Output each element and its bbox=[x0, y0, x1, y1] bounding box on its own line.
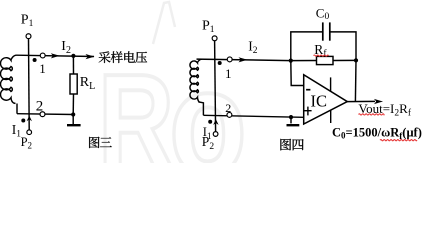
arrowhead I1 up fig3 bbox=[27, 116, 32, 122]
arrowhead I2 fig3 bbox=[51, 53, 60, 58]
wire: Rf line right segment bbox=[333, 59, 356, 61]
wire: figure3 bottom horizontal (node2) bbox=[17, 113, 73, 116]
junction dot feedback left bbox=[289, 59, 293, 63]
junction dot feedback right bbox=[354, 58, 358, 62]
terminal node 2 fig3 bbox=[40, 112, 45, 117]
caption 图四 (figure 4) bbox=[280, 139, 303, 151]
resistor Rf bbox=[317, 56, 334, 64]
junction dot coil bottom fig4 bbox=[208, 120, 212, 124]
wire: feedback left rail up to C0 bbox=[291, 32, 322, 61]
svg-text:R: R bbox=[98, 45, 174, 163]
wire: C0 right side to right rail bbox=[330, 32, 356, 61]
wire: RL branch down from top wire bbox=[72, 56, 74, 74]
arrowhead to sampling text bbox=[86, 54, 95, 59]
junction dot RL bottom fig3 bbox=[71, 112, 75, 116]
terminal P1 fig3 bbox=[26, 34, 31, 39]
red squiggle under Vout bbox=[359, 114, 385, 115]
ground op-amp + input bbox=[287, 124, 300, 126]
arrowhead output Vout bbox=[374, 99, 383, 104]
wire: coil bottom lead corner bbox=[16, 104, 18, 114]
svg-text:1: 1 bbox=[39, 61, 46, 76]
capacitor C0 bbox=[323, 22, 330, 40]
terminal node 1 fig3 bbox=[40, 53, 45, 58]
op-amp minus sign bbox=[306, 89, 310, 91]
terminal P1 fig4 bbox=[212, 36, 217, 41]
wire: RL bottom lead bbox=[72, 94, 74, 115]
coil L1 (left transformer winding) bbox=[1, 55, 17, 103]
op-amp power ticks bbox=[330, 77, 332, 123]
watermark bbox=[98, 2, 247, 206]
wire: fig4 bottom horizontal node2 to op-amp + input bbox=[203, 115, 303, 117]
wire: fig4 coil bottom Z lead bbox=[198, 102, 203, 115]
wire: op-amp output bbox=[347, 100, 376, 102]
arrowhead I2 fig4 bbox=[239, 57, 248, 62]
ground stub op-amp + bbox=[290, 117, 292, 123]
red squiggle under Rf bbox=[314, 55, 329, 56]
arrowhead I1 up fig4 bbox=[213, 119, 218, 125]
terminal node 2 fig4 bbox=[227, 112, 232, 117]
svg-text:C0=1500/ωRf(μf): C0=1500/ωRf(μf) bbox=[332, 126, 422, 141]
wire: Rf line left segment bbox=[291, 60, 317, 62]
label 采样电压 (sampling voltage) bbox=[99, 51, 147, 63]
wire: inverting input drop bbox=[291, 61, 304, 86]
junction dot coil bottom fig3 bbox=[21, 119, 25, 123]
svg-text:Vout=I2Rf: Vout=I2Rf bbox=[358, 101, 411, 119]
ground stub fig3 bbox=[72, 115, 74, 125]
wire: fig4 vertical trunk P1-P2 bbox=[215, 41, 216, 132]
junction dot RL top fig3 bbox=[71, 54, 75, 58]
svg-text:2: 2 bbox=[36, 98, 44, 114]
wire: right rail down to output bbox=[354, 60, 357, 101]
terminal node 1 fig4 bbox=[227, 57, 232, 62]
wire: figure3 vertical trunk P1-P2 bbox=[28, 39, 31, 130]
junction dot node1 fig3 bbox=[33, 58, 37, 62]
terminal P2 fig4 bbox=[213, 132, 218, 137]
wire: figure3 top horizontal (coil top to sampling arrow) bbox=[17, 55, 95, 56]
svg-text:2: 2 bbox=[225, 101, 231, 115]
terminal P2 fig3 bbox=[27, 130, 32, 135]
op-amp plus sign bbox=[304, 107, 311, 116]
junction dot op-amp + input bbox=[289, 115, 293, 119]
junction dot node1 fig4 bbox=[218, 61, 222, 65]
ground fig3 bbox=[67, 124, 81, 126]
red squiggle under omega-Rf-uf bbox=[380, 140, 417, 141]
wire: fig4 top horizontal node1 to inverting junction bbox=[197, 59, 291, 61]
op-amp IC triangle bbox=[304, 75, 348, 124]
coil fig4 (transformer winding) bbox=[190, 59, 202, 102]
svg-text:1: 1 bbox=[225, 66, 232, 81]
resistor RL bbox=[70, 74, 77, 94]
svg-text:IC: IC bbox=[311, 91, 328, 110]
caption 图三 (figure 3) bbox=[89, 137, 112, 148]
